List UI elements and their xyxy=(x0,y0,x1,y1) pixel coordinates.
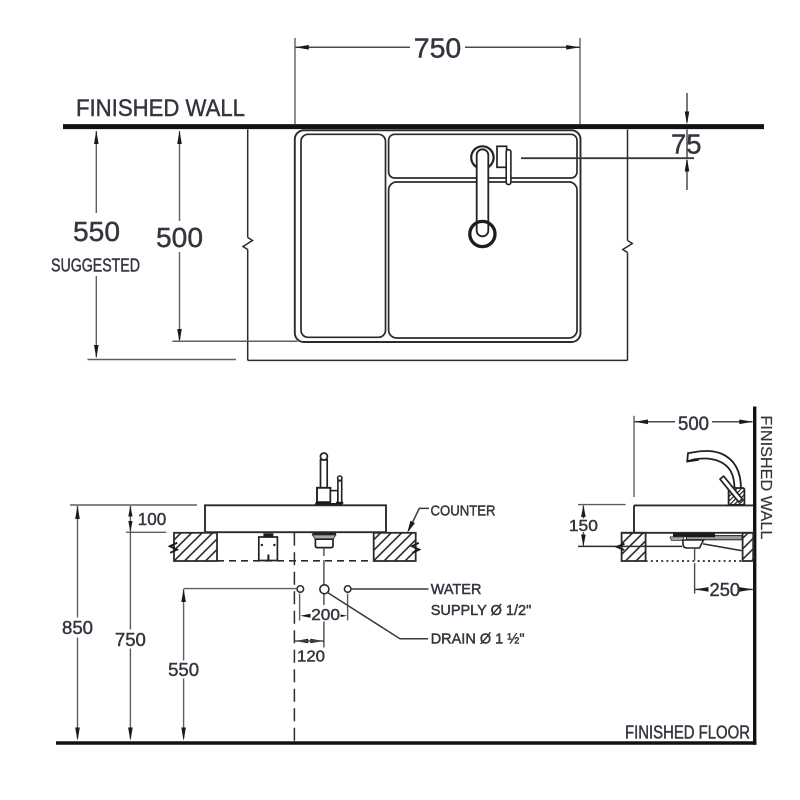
faucet bridge (front) xyxy=(330,491,337,504)
faucet body (front) xyxy=(317,488,330,504)
faucet spout tip edge (side) xyxy=(687,460,699,462)
svg-text:FINISHED WALL: FINISHED WALL xyxy=(757,415,774,539)
break mark counter left edge (side) xyxy=(617,544,625,550)
svg-text:750: 750 xyxy=(115,629,146,650)
faucet handle stem (front) xyxy=(338,481,342,504)
dim 75 connector through text xyxy=(686,130,688,159)
drain centerline (side) xyxy=(694,548,696,594)
faucet deck section (plan) xyxy=(389,134,577,178)
faucet handle foot (front) xyxy=(336,502,343,504)
counter hidden bottom (side, dotted) xyxy=(646,560,743,562)
dim 500 line (plan) xyxy=(179,131,181,340)
leader WATER SUPPLY xyxy=(351,588,428,590)
dim 550 line (front) xyxy=(183,589,185,738)
counter right broken edge (plan) xyxy=(623,130,633,361)
dim 500 bottom reference line (plan) xyxy=(172,340,297,342)
dim 850 line xyxy=(77,506,79,739)
svg-text:SUGGESTED: SUGGESTED xyxy=(51,256,140,276)
drain flange bar (side) xyxy=(673,533,715,537)
dim 75 lower arrow xyxy=(686,160,688,190)
svg-text:FINISHED FLOOR: FINISHED FLOOR xyxy=(625,723,750,743)
sink slab (front) xyxy=(205,505,386,532)
faucet base inner circle (plan) xyxy=(477,152,488,163)
leader COUNTER xyxy=(409,508,430,530)
dim 550 bottom reference line xyxy=(88,359,237,361)
svg-text:750: 750 xyxy=(414,32,462,63)
svg-text:120: 120 xyxy=(297,648,325,665)
counter left section (front) xyxy=(174,533,217,561)
faucet spout tube (front) xyxy=(321,460,328,488)
dim 250 line xyxy=(695,588,753,590)
svg-text:100: 100 xyxy=(138,509,167,529)
faucet handle ball (front) xyxy=(338,476,342,480)
dim 750 arrowheads xyxy=(295,45,309,50)
dim 75 upper arrow xyxy=(686,93,688,122)
dim 200 extension lines xyxy=(300,594,348,621)
sink slab (side) xyxy=(634,505,753,532)
dim 150 extension line xyxy=(578,504,626,506)
basin section (plan) xyxy=(389,182,577,338)
dim 750 extension lines xyxy=(295,38,580,124)
supply stop nipple (front) xyxy=(267,555,269,561)
supply stop screws (front) xyxy=(261,544,263,546)
dim 200 text background xyxy=(311,605,341,622)
drain stub circle xyxy=(320,585,329,594)
faucet base foot (front) xyxy=(315,501,332,505)
finished wall line (side) xyxy=(753,407,756,745)
dim 500 extension line (side) xyxy=(633,416,635,497)
dim 550 suggested line xyxy=(95,131,97,357)
drain flange cone (front) xyxy=(312,535,336,539)
finished floor line xyxy=(56,741,757,745)
dim 500 line (side) xyxy=(635,421,753,423)
supply stop valve under sink (front) xyxy=(259,537,278,561)
faucet valve body (plan) xyxy=(497,146,507,167)
faucet reference line to 75 dim xyxy=(521,157,694,159)
bowl bottom band (side) xyxy=(687,536,743,540)
supply stub left circle xyxy=(297,586,304,593)
svg-text:550: 550 xyxy=(168,659,199,680)
finished wall line (plan) xyxy=(63,124,764,129)
extension line top of slab (front) xyxy=(70,504,197,506)
leader DRAIN xyxy=(328,593,429,639)
supply stop cap (front) xyxy=(263,533,273,537)
wall centerline dashed (front) xyxy=(293,533,295,742)
svg-text:DRAIN Ø 1 ½": DRAIN Ø 1 ½" xyxy=(431,632,525,648)
counter left broken edge (plan) xyxy=(243,130,253,361)
faucet lever (side) xyxy=(720,476,742,502)
drain body (side) xyxy=(683,540,704,548)
extension line supply level (front) xyxy=(184,588,297,590)
drainboard compartment (plan) xyxy=(301,134,386,337)
svg-text:75: 75 xyxy=(671,129,702,160)
faucet lever handle (plan) xyxy=(506,150,511,185)
counter left section (side) xyxy=(622,533,646,561)
supply stub right circle xyxy=(344,586,351,593)
drain flange lip (side) xyxy=(670,537,684,541)
sink underside line (side) xyxy=(578,545,682,547)
svg-text:150: 150 xyxy=(569,518,598,535)
svg-text:850: 850 xyxy=(62,617,93,638)
dim 550 arrowheads xyxy=(94,131,99,144)
faucet aerator ring (plan) xyxy=(470,221,495,246)
svg-text:SUPPLY Ø 1/2": SUPPLY Ø 1/2" xyxy=(431,603,532,619)
svg-text:COUNTER: COUNTER xyxy=(431,503,496,519)
svg-text:500: 500 xyxy=(156,222,203,253)
svg-text:550: 550 xyxy=(73,216,120,247)
faucet base outer circle (plan) xyxy=(471,146,493,168)
break mark right counter edge (front) xyxy=(412,543,419,553)
counter top line (side) xyxy=(622,532,753,534)
counter right section (side) xyxy=(743,533,754,561)
dim 120 arrowheads xyxy=(295,639,308,643)
svg-text:500: 500 xyxy=(678,414,709,435)
bowl slope line (side) xyxy=(703,544,742,551)
extension line counter top (front) xyxy=(126,531,166,533)
break mark left counter edge (front) xyxy=(170,543,177,553)
svg-text:WATER: WATER xyxy=(431,582,482,598)
svg-text:250: 250 xyxy=(710,580,741,600)
drain flange bar (front) xyxy=(312,533,336,535)
svg-text:200: 200 xyxy=(311,607,340,624)
faucet spout tube (plan) xyxy=(477,149,489,236)
sink outer rim (plan) xyxy=(295,130,581,342)
faucet spout (side) xyxy=(687,451,741,489)
dim 100/750 shared line xyxy=(129,506,131,739)
faucet base (side) xyxy=(729,488,745,505)
dim 750 dimension line xyxy=(296,46,581,48)
svg-text:FINISHED WALL: FINISHED WALL xyxy=(76,95,245,122)
counter front edge line (plan) xyxy=(248,359,628,361)
dim 150 line xyxy=(582,506,584,546)
drain centerline (front) xyxy=(323,548,325,648)
dim 500 arrowheads (plan) xyxy=(177,131,182,144)
faucet spout top ring (front) xyxy=(320,453,327,460)
counter right section (front) xyxy=(374,533,416,561)
dim 200 arrowheads xyxy=(300,614,310,618)
counter hidden bottom (front, dashed) xyxy=(217,560,374,562)
drain cup (front) xyxy=(315,539,333,547)
